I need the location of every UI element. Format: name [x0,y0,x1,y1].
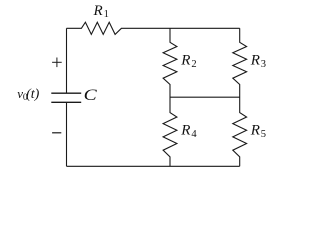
svg-text:5: 5 [261,129,266,140]
svg-text:R: R [180,53,190,69]
svg-text:R: R [250,53,260,69]
svg-text:3: 3 [261,59,266,70]
svg-text:2: 2 [191,59,196,70]
svg-text:(t): (t) [26,87,40,102]
svg-text:C: C [84,86,98,104]
svg-text:4: 4 [191,129,197,140]
svg-text:R: R [93,3,103,19]
svg-text:R: R [250,123,260,139]
svg-text:R: R [180,123,190,139]
svg-text:1: 1 [104,9,109,20]
